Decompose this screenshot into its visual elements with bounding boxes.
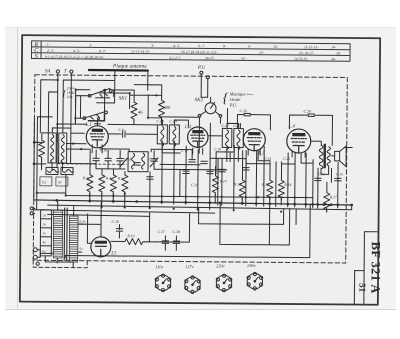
right resistor wires <box>326 182 328 211</box>
misc vertical drops to rails <box>150 123 307 211</box>
main HT rail <box>35 200 352 205</box>
switch SK1 <box>88 88 112 98</box>
tube L2 pins <box>193 148 203 154</box>
long mid horizontal wires <box>57 124 227 170</box>
tuning gang dashed link <box>57 163 126 166</box>
antenna terminal T <box>69 70 73 133</box>
coupling cap C9 <box>108 133 157 135</box>
IF transformer 2 winding b <box>234 128 244 149</box>
tube L1 <box>86 126 108 148</box>
IF transformer 1 winding a <box>157 125 167 146</box>
resistor R9 <box>158 98 164 120</box>
parts table <box>31 41 350 61</box>
tube L2 <box>188 127 209 148</box>
C26 loop <box>237 115 270 130</box>
mid horizontal link wires <box>100 149 295 164</box>
output transformer core <box>323 144 326 169</box>
AVC bus dots <box>36 192 307 199</box>
output transformer secondary <box>327 147 330 166</box>
output stage wires <box>310 141 335 208</box>
power transformer primary <box>53 210 62 258</box>
antenna terminal 9A <box>56 70 60 142</box>
capacitor C29 <box>308 114 314 116</box>
left block wires <box>42 128 71 170</box>
tone arm wire <box>226 108 228 123</box>
chassis notch dashed <box>33 260 87 267</box>
socket dial 4 <box>247 272 263 290</box>
transformer top leads <box>57 201 83 252</box>
tube L3 <box>243 129 265 152</box>
second rail <box>48 202 352 209</box>
IF2 wires <box>208 123 239 161</box>
third rail <box>35 210 215 213</box>
rotary switch SK2 <box>198 97 222 117</box>
tube L4 <box>287 129 311 153</box>
misc vertical wires upper <box>71 90 221 164</box>
resistor R8 value 46 <box>131 100 137 122</box>
resistor R1 left <box>39 138 45 160</box>
title block divider <box>354 232 378 305</box>
mid resistor bank <box>87 172 93 194</box>
AVC dots extra <box>161 195 199 198</box>
rail junction dots <box>55 199 353 206</box>
cap plates row <box>93 158 99 160</box>
antenna coil winding a <box>48 133 56 163</box>
oscillator coil box <box>128 152 148 172</box>
IF transformer 2 winding a <box>222 128 232 149</box>
grid cap wire L1 <box>57 121 157 125</box>
detector wires <box>242 151 281 205</box>
wire cluster top-left <box>40 70 200 135</box>
plaque antenne bar <box>89 69 148 72</box>
svg-text:R.17: R.17 <box>329 195 338 199</box>
faint scan tint <box>21 36 379 304</box>
power transformer core <box>64 208 67 260</box>
filter capacitor C38 <box>175 236 177 250</box>
horizontal coil d <box>61 167 74 174</box>
rectifier tube L5 <box>91 237 111 257</box>
IF1 wires <box>162 120 188 153</box>
switch SK1 lower lever <box>83 111 107 121</box>
rail2 dots <box>101 206 283 213</box>
transformer bottom leads <box>45 256 73 267</box>
socket dial 3 <box>216 274 232 292</box>
wire from plaque bar down <box>97 70 115 103</box>
speaker lead crossing chassis <box>344 146 352 148</box>
power transformer secondary <box>69 216 78 262</box>
value box b <box>56 177 68 186</box>
padder capacitor row <box>96 150 154 169</box>
inner RF box <box>63 80 114 128</box>
wire switch to R8 <box>111 90 134 125</box>
ground dots left <box>33 141 36 144</box>
L5 top lead <box>78 202 101 243</box>
terminal strip box <box>40 210 51 256</box>
mains plug <box>33 248 53 266</box>
wire filter to rail <box>149 213 189 242</box>
wires to chassis <box>34 120 47 200</box>
value box a <box>40 177 52 186</box>
table row letters R C S <box>33 41 39 60</box>
capacitor C18 <box>118 224 120 237</box>
IF transformer 1 winding b <box>169 125 179 146</box>
socket dial 1 <box>155 274 171 292</box>
mid horizontal bus AVC <box>37 117 314 213</box>
page edge shading <box>17 28 19 308</box>
extra vertical drops <box>218 123 277 206</box>
switch wiring detail <box>100 93 161 118</box>
tube L1 pins <box>92 145 102 153</box>
output transformer primary <box>319 145 323 169</box>
C29 loop <box>289 115 332 145</box>
antenna coil winding b <box>59 133 67 163</box>
left rail terminals <box>30 207 35 215</box>
routing rectangle 2 <box>220 203 290 245</box>
detector resistors <box>239 178 245 200</box>
right side resistor <box>324 190 330 212</box>
table tick marks row R <box>45 43 342 62</box>
wire R9 top <box>134 85 162 125</box>
routing rectangle 3 <box>65 202 310 260</box>
routing rectangle 1 <box>199 207 297 224</box>
capacitor C26 <box>244 113 250 115</box>
mid resistor bank wires <box>90 150 125 205</box>
socket dial 2 <box>185 276 201 294</box>
scattered capacitors mid band <box>134 159 342 181</box>
fourth rail <box>48 214 150 216</box>
border frame <box>20 35 380 305</box>
tube L4 pins <box>292 151 305 157</box>
tube L3 pins <box>248 149 260 155</box>
resistor R11 <box>212 173 218 195</box>
speaker <box>335 146 347 167</box>
osc grid links <box>66 144 90 150</box>
horizontal coil c <box>46 167 59 174</box>
chassis dashed box <box>33 75 347 263</box>
filter capacitor C37 <box>164 236 166 250</box>
trimmer arrows <box>120 158 158 167</box>
mid vertical link wires <box>129 145 339 209</box>
junction dots top-left <box>56 79 106 126</box>
resistor R16 horizontal <box>111 238 157 244</box>
